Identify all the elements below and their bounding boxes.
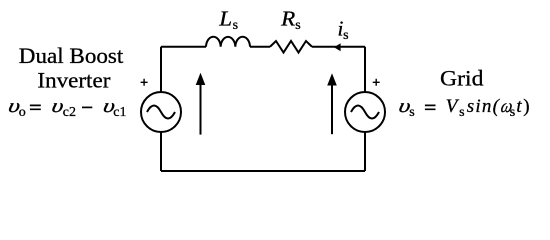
source vo circle (inverter source) [141,92,181,132]
svg-text:t: t [516,96,522,117]
svg-text:o: o [19,105,26,120]
voltage arrow at grid source [331,85,333,135]
svg-text:Grid: Grid [440,65,484,90]
svg-text:s: s [233,18,238,33]
label Rs [280,7,296,31]
svg-text:c2: c2 [63,105,76,120]
svg-text:): ) [523,96,529,117]
voltage arrow at inverter source [200,84,202,135]
wire: top-left horizontal segment [161,46,206,48]
svg-text:V: V [446,96,460,117]
sine symbol inside grid source [351,106,379,119]
wire: bottom horizontal [161,170,365,172]
svg-text:c1: c1 [113,105,126,120]
wire: left vertical lower [160,132,162,171]
svg-text:Dual Boost: Dual Boost [19,43,124,68]
svg-text:s: s [409,105,414,120]
polarity + of inverter source [141,79,148,86]
label Ls [218,7,232,31]
current arrowhead is (points left on top wire) [334,43,341,51]
wire: between inductor and resistor [250,46,270,48]
svg-text:s: s [510,105,515,120]
svg-text:s: s [459,105,464,120]
resistor Rs (zigzag) [270,41,312,53]
equation vo = vc2 - vc1 [6,95,126,120]
svg-text:L: L [218,7,232,31]
inductor Ls (3 loops) [206,37,250,47]
svg-text:R: R [280,7,296,31]
svg-text:s: s [343,28,348,43]
svg-text:s: s [295,18,300,33]
wire: left vertical upper [160,47,162,92]
svg-text:Inverter: Inverter [37,68,111,93]
equation vs = Vs sin(ws t) [397,95,530,120]
wire: right vertical upper [364,47,366,92]
sine symbol inside inverter source [147,106,175,119]
source Vs circle (grid source) [345,92,385,132]
polarity + of grid source [373,79,380,86]
wire: right vertical lower [364,132,366,171]
svg-text:sin(: sin( [467,96,501,117]
wire: top-right horizontal segment [312,46,365,48]
